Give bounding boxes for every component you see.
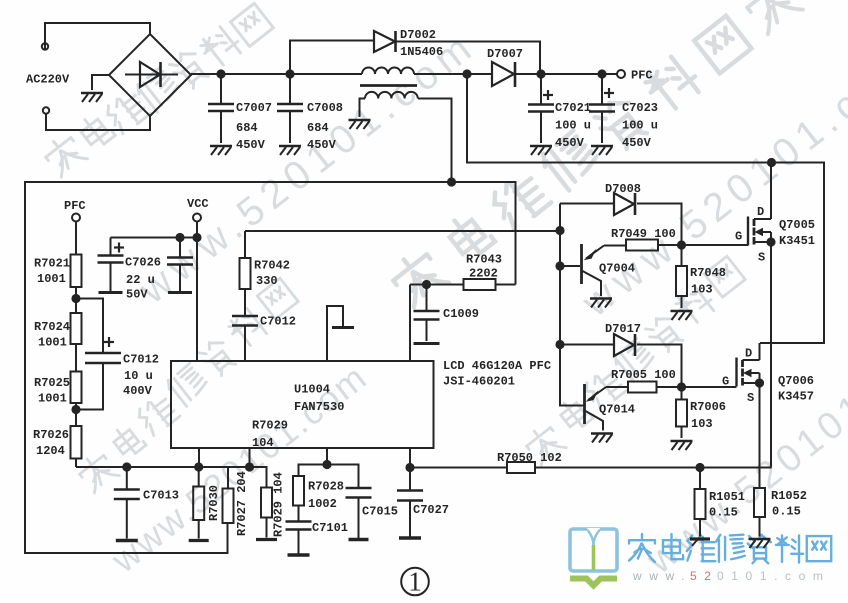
svg-text:C7027: C7027 <box>413 503 449 517</box>
svg-text:D: D <box>757 205 764 219</box>
svg-text:C7023: C7023 <box>622 101 658 115</box>
svg-text:LCD 46G120A PFC: LCD 46G120A PFC <box>443 359 551 373</box>
svg-text:Q7014: Q7014 <box>599 403 635 417</box>
svg-text:C7007: C7007 <box>236 101 272 115</box>
svg-text:K3457: K3457 <box>778 390 814 404</box>
svg-text:D7007: D7007 <box>487 47 523 61</box>
svg-text:K3451: K3451 <box>779 234 815 248</box>
svg-text:450V: 450V <box>555 136 585 150</box>
svg-text:R7024: R7024 <box>34 320 70 334</box>
svg-text:C7008: C7008 <box>307 101 343 115</box>
svg-text:10 u: 10 u <box>124 369 153 383</box>
svg-text:100 u: 100 u <box>555 119 591 133</box>
svg-text:450V: 450V <box>622 136 652 150</box>
svg-text:R7048: R7048 <box>690 266 726 280</box>
svg-text:C7026: C7026 <box>125 256 161 270</box>
svg-text:104: 104 <box>252 436 274 450</box>
svg-text:103: 103 <box>691 417 713 431</box>
svg-text:R7006: R7006 <box>690 400 726 414</box>
svg-text:Q7004: Q7004 <box>599 262 635 276</box>
svg-text:1002: 1002 <box>308 497 337 511</box>
svg-text:R7027 204: R7027 204 <box>235 471 249 536</box>
svg-text:PFC: PFC <box>64 199 86 213</box>
svg-text:U1004: U1004 <box>294 383 330 397</box>
svg-text:684: 684 <box>236 121 258 135</box>
svg-text:R7028: R7028 <box>308 480 344 494</box>
svg-text:C7012: C7012 <box>260 315 296 329</box>
svg-text:R7026: R7026 <box>33 428 69 442</box>
svg-text:1204: 1204 <box>36 444 65 458</box>
svg-text:330: 330 <box>256 274 278 288</box>
svg-text:100 u: 100 u <box>622 119 658 133</box>
svg-text:450V: 450V <box>307 138 337 152</box>
svg-text:JSI-460201: JSI-460201 <box>443 375 515 389</box>
svg-text:0.15: 0.15 <box>709 506 738 520</box>
svg-text:R7029 104: R7029 104 <box>272 472 286 537</box>
svg-text:R7005 100: R7005 100 <box>611 368 676 382</box>
svg-text:R7030: R7030 <box>207 485 221 521</box>
svg-text:1N5406: 1N5406 <box>400 45 443 59</box>
svg-text:1001: 1001 <box>38 336 67 350</box>
svg-text:0101.com: 0101.com <box>717 569 831 583</box>
svg-text:C7015: C7015 <box>362 505 398 519</box>
svg-text:684: 684 <box>307 121 329 135</box>
svg-text:1001: 1001 <box>37 272 66 286</box>
svg-text:S: S <box>758 251 765 265</box>
svg-text:2202: 2202 <box>469 267 498 281</box>
svg-text:C1009: C1009 <box>443 307 479 321</box>
svg-text:103: 103 <box>691 283 713 297</box>
svg-text:R7050 102: R7050 102 <box>497 451 562 465</box>
svg-text:450V: 450V <box>236 138 266 152</box>
svg-text:D7008: D7008 <box>605 182 641 196</box>
svg-text:FAN7530: FAN7530 <box>294 400 344 414</box>
svg-text:G: G <box>735 230 742 244</box>
svg-text:D7017: D7017 <box>605 322 641 336</box>
svg-text:R7042: R7042 <box>254 259 290 273</box>
svg-text:R7029: R7029 <box>252 419 288 433</box>
svg-text:Q7006: Q7006 <box>778 374 814 388</box>
svg-text:R1052: R1052 <box>771 489 807 503</box>
svg-text:22 u: 22 u <box>126 273 155 287</box>
svg-text:C7013: C7013 <box>143 489 179 503</box>
svg-text:C7012: C7012 <box>123 353 159 367</box>
svg-text:R7043: R7043 <box>466 253 502 267</box>
svg-text:C7101: C7101 <box>312 521 348 535</box>
svg-text:S: S <box>747 391 754 405</box>
svg-text:R7049 100: R7049 100 <box>611 227 676 241</box>
svg-text:50V: 50V <box>126 288 148 302</box>
svg-text:R7025: R7025 <box>34 376 70 390</box>
svg-text:PFC: PFC <box>631 69 653 83</box>
svg-text:52: 52 <box>690 569 719 583</box>
svg-text:R7021: R7021 <box>34 257 70 271</box>
svg-text:1001: 1001 <box>38 392 67 406</box>
svg-text:D: D <box>745 347 752 361</box>
svg-text:Q7005: Q7005 <box>779 218 815 232</box>
svg-text:1: 1 <box>408 567 422 597</box>
svg-text:VCC: VCC <box>187 197 209 211</box>
svg-text:AC220V: AC220V <box>26 73 70 87</box>
svg-text:D7002: D7002 <box>400 28 436 42</box>
svg-text:400V: 400V <box>123 384 153 398</box>
svg-text:C7021: C7021 <box>555 101 591 115</box>
svg-text:R1051: R1051 <box>709 490 745 504</box>
svg-text:0.15: 0.15 <box>772 505 801 519</box>
svg-text:www.: www. <box>632 569 692 583</box>
